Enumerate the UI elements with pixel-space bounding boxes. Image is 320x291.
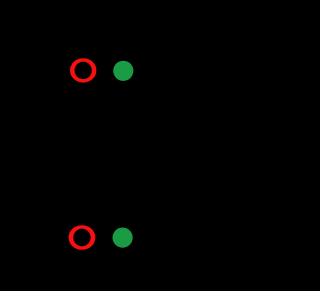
atom O1 (top red ring): [70, 58, 96, 82]
atom highlight (top green disc): [113, 61, 133, 81]
atom O2 (bottom red ring): [69, 225, 96, 250]
atom highlight (bottom green disc): [113, 228, 133, 248]
